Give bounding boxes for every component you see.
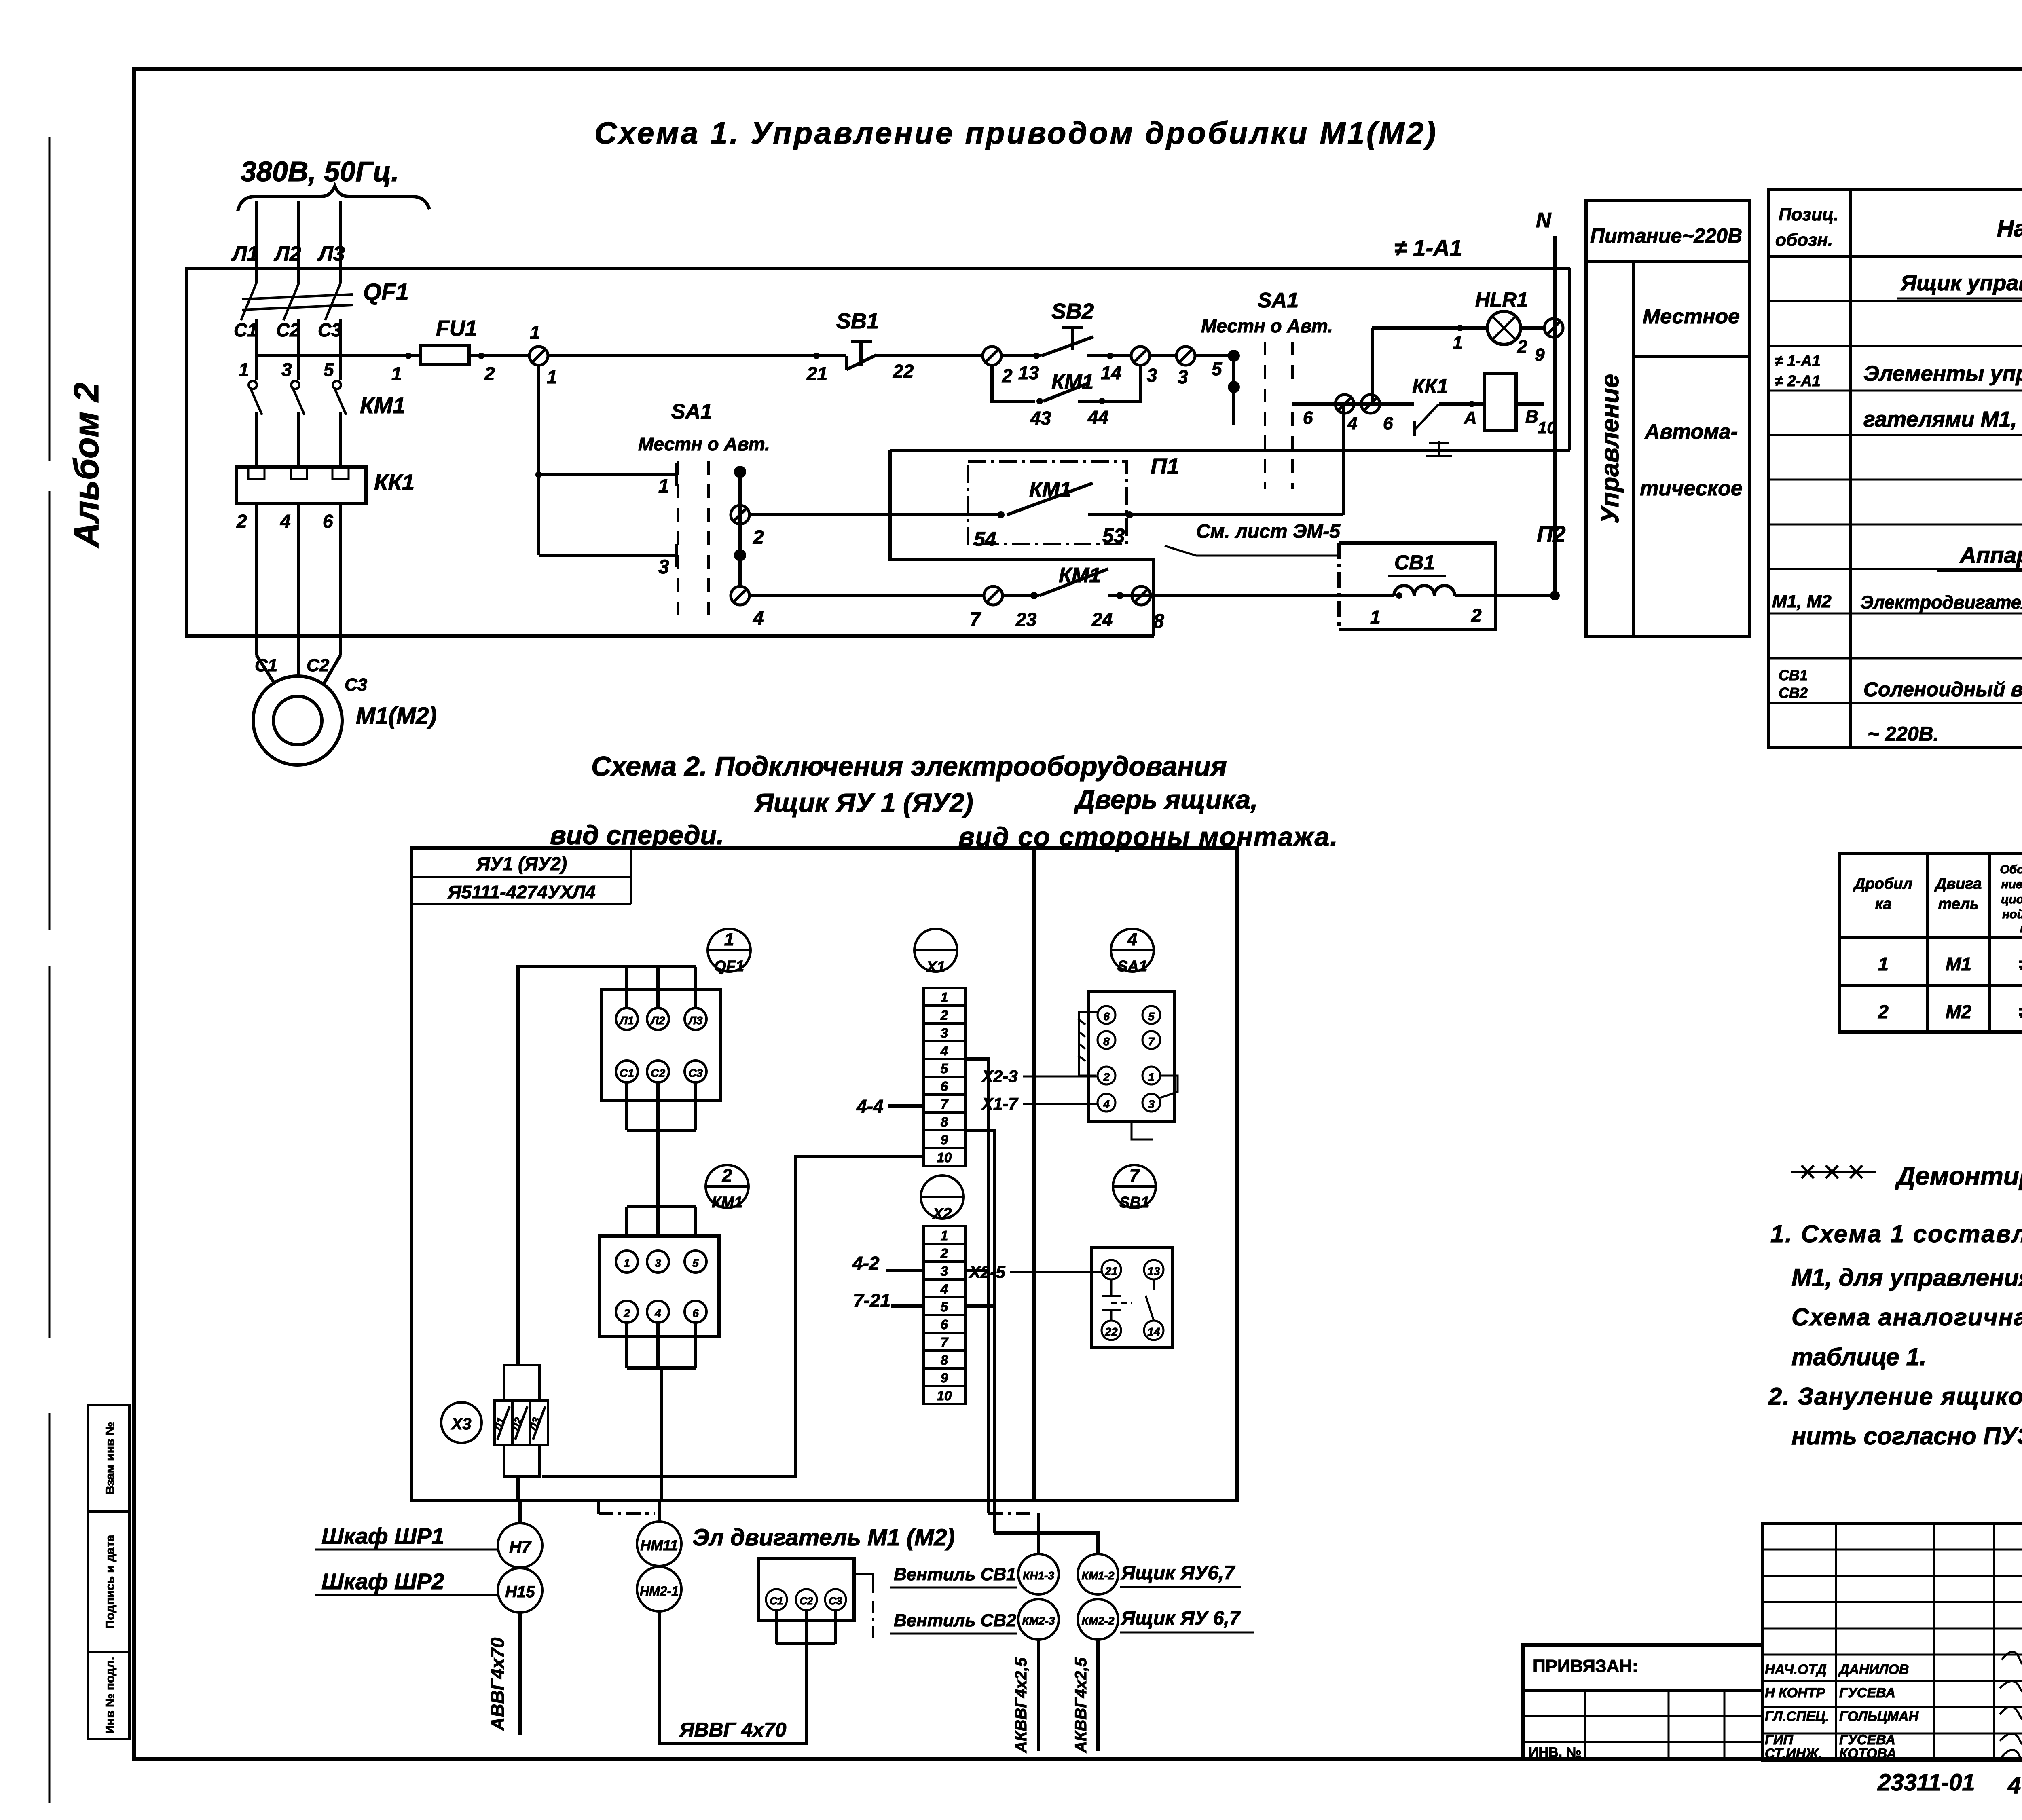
svg-text:2: 2 [753, 527, 764, 548]
svg-text:21: 21 [1104, 1265, 1117, 1277]
svg-text:6: 6 [692, 1307, 699, 1319]
svg-text:Альбом 2: Альбом 2 [67, 383, 106, 548]
svg-text:Питание~220В: Питание~220В [1590, 224, 1742, 247]
svg-text:Шкаф ШР1: Шкаф ШР1 [321, 1523, 444, 1549]
svg-text:9: 9 [941, 1132, 948, 1147]
svg-text:2: 2 [1471, 605, 1482, 626]
svg-text:Элементы управления электродви: Элементы управления электродви- [1863, 361, 2022, 386]
svg-text:КН1-3: КН1-3 [1023, 1569, 1054, 1582]
svg-text:4: 4 [1347, 414, 1357, 433]
svg-text:54: 54 [974, 528, 996, 550]
svg-text:~ 220В.: ~ 220В. [1868, 723, 1939, 745]
svg-text:1: 1 [1453, 333, 1462, 353]
svg-text:2: 2 [940, 1008, 948, 1023]
svg-text:SB1: SB1 [836, 309, 879, 333]
svg-text:циональ-: циональ- [2001, 893, 2022, 906]
svg-text:НАЧ.ОТД: НАЧ.ОТД [1765, 1662, 1827, 1677]
svg-text:2: 2 [484, 363, 495, 384]
svg-text:Х2-5: Х2-5 [969, 1262, 1005, 1281]
svg-text:Позиц.: Позиц. [1779, 205, 1839, 224]
svg-text:8: 8 [941, 1353, 948, 1368]
svg-text:ГУСЕВА: ГУСЕВА [1839, 1732, 1895, 1748]
svg-text:Местн о Авт.: Местн о Авт. [638, 433, 770, 454]
svg-text:QF1: QF1 [363, 279, 409, 305]
svg-text:6: 6 [1383, 414, 1393, 433]
svg-text:Дробил: Дробил [1853, 875, 1912, 892]
svg-text:1: 1 [1148, 1071, 1155, 1083]
svg-text:СВ2: СВ2 [1779, 685, 1808, 701]
svg-text:Ящик ЯУ6,7: Ящик ЯУ6,7 [1120, 1562, 1235, 1584]
svg-text:13: 13 [1147, 1265, 1160, 1277]
svg-text:4: 4 [280, 511, 291, 532]
svg-text:3: 3 [941, 1025, 948, 1040]
svg-text:АКВВГ4х2,5: АКВВГ4х2,5 [1072, 1657, 1090, 1753]
svg-text:ГОЛЬЦМАН: ГОЛЬЦМАН [1839, 1709, 1919, 1724]
svg-text:1: 1 [658, 476, 669, 497]
svg-text:44: 44 [1087, 407, 1108, 428]
svg-text:СВ1: СВ1 [1394, 551, 1435, 574]
svg-text:10: 10 [937, 1150, 952, 1165]
svg-text:QF1: QF1 [714, 958, 744, 975]
svg-text:5: 5 [692, 1257, 699, 1269]
svg-text:Я5111-4274УХЛ4: Я5111-4274УХЛ4 [447, 881, 596, 903]
svg-text:ГИП: ГИП [1765, 1732, 1794, 1748]
svg-text:В: В [1525, 407, 1538, 427]
svg-text:С1: С1 [770, 1595, 783, 1607]
svg-text:5: 5 [324, 359, 334, 380]
svg-text:КОТОВА: КОТОВА [1839, 1746, 1896, 1761]
svg-text:4-2: 4-2 [852, 1253, 880, 1274]
svg-text:Х2-3: Х2-3 [981, 1067, 1018, 1086]
svg-text:С1: С1 [234, 319, 258, 340]
svg-text:3: 3 [1148, 1098, 1155, 1110]
svg-text:Вентиль СВ1: Вентиль СВ1 [894, 1564, 1016, 1584]
svg-text:2. Зануление ящиков, эл. двига: 2. Зануление ящиков, эл. двигателей выпо… [1768, 1383, 2022, 1410]
svg-text:13: 13 [1018, 362, 1039, 383]
svg-text:С1: С1 [255, 655, 277, 675]
svg-text:Н КОНТР: Н КОНТР [1765, 1685, 1825, 1701]
svg-text:1: 1 [624, 1257, 630, 1269]
svg-text:Вентиль СВ2: Вентиль СВ2 [894, 1611, 1016, 1630]
svg-text:1: 1 [941, 1228, 948, 1243]
svg-text:≠ 2-А1: ≠ 2-А1 [1775, 373, 1821, 390]
svg-text:П2: П2 [1537, 521, 1565, 547]
svg-text:Управление: Управление [1596, 374, 1624, 524]
svg-text:SA1: SA1 [1258, 289, 1299, 312]
svg-text:Эл двигатель М1 (М2): Эл двигатель М1 (М2) [692, 1524, 955, 1551]
svg-text:обозн.: обозн. [1775, 230, 1833, 250]
svg-text:СВ1: СВ1 [1779, 667, 1808, 683]
svg-text:22: 22 [1104, 1325, 1118, 1338]
svg-text:8: 8 [1153, 611, 1164, 632]
svg-text:380В, 50Гц.: 380В, 50Гц. [241, 156, 399, 187]
svg-text:10: 10 [937, 1388, 952, 1403]
svg-text:НМ11: НМ11 [640, 1537, 678, 1554]
svg-text:≠2: ≠2 [2019, 1001, 2022, 1022]
svg-text:М1: М1 [1946, 953, 1971, 974]
svg-text:SВ1: SВ1 [1119, 1194, 1149, 1211]
svg-text:С3: С3 [829, 1595, 842, 1607]
svg-text:1: 1 [530, 322, 540, 343]
svg-text:Х1-7: Х1-7 [981, 1094, 1018, 1113]
svg-text:53: 53 [1102, 524, 1125, 547]
svg-text:Схема 2. Подключения электрооб: Схема 2. Подключения электрооборудования [591, 751, 1227, 782]
svg-text:С2: С2 [799, 1595, 813, 1607]
svg-text:пы: пы [2020, 922, 2022, 935]
svg-text:ние функ: ние функ [2001, 878, 2022, 891]
svg-text:6: 6 [941, 1079, 948, 1094]
svg-text:Электродвигатель 4А250S4;~380В: Электродвигатель 4А250S4;~380В; 75кВт. [1860, 592, 2022, 613]
svg-text:КМ1: КМ1 [1051, 370, 1093, 394]
svg-text:Н15: Н15 [505, 1583, 535, 1601]
svg-text:Дверь ящика,: Дверь ящика, [1074, 784, 1258, 814]
svg-text:1. Схема 1 составлена для упра: 1. Схема 1 составлена для управления при… [1770, 1220, 2022, 1247]
svg-text:Подпись и дата: Подпись и дата [104, 1535, 117, 1629]
svg-text:SB2: SB2 [1051, 299, 1094, 323]
svg-text:Наименование: Наименование [1997, 216, 2022, 242]
svg-text:3: 3 [1178, 366, 1188, 387]
svg-text:2: 2 [623, 1307, 630, 1319]
svg-text:М1(М2): М1(М2) [356, 703, 437, 729]
svg-text:9: 9 [1535, 345, 1545, 365]
svg-text:С3: С3 [688, 1067, 703, 1079]
svg-text:ПРИВЯЗАН:: ПРИВЯЗАН: [1533, 1656, 1638, 1676]
svg-text:Схема аналогична с изменениями: Схема аналогична с изменениями согласно [1791, 1304, 2022, 1331]
svg-text:С3: С3 [345, 675, 367, 695]
svg-text:5: 5 [941, 1061, 948, 1076]
svg-text:М1, для управления приводом М2: М1, для управления приводом М2. [1791, 1264, 2022, 1291]
svg-text:4-4: 4-4 [856, 1096, 883, 1117]
svg-text:Инв № подл.: Инв № подл. [104, 1657, 117, 1734]
svg-text:FU1: FU1 [436, 316, 477, 340]
svg-text:4: 4 [654, 1307, 661, 1319]
svg-text:4: 4 [753, 608, 764, 629]
svg-text:КМ1-2: КМ1-2 [1081, 1569, 1114, 1582]
svg-text:5: 5 [941, 1299, 948, 1314]
svg-text:6: 6 [323, 511, 333, 532]
svg-text:2: 2 [236, 511, 247, 532]
svg-text:7: 7 [941, 1335, 949, 1350]
svg-text:≠ 1-А1: ≠ 1-А1 [1394, 235, 1462, 260]
svg-text:2: 2 [722, 1166, 732, 1186]
svg-text:N: N [1536, 209, 1552, 232]
svg-text:С2: С2 [651, 1067, 665, 1079]
svg-text:2: 2 [1878, 1001, 1889, 1022]
svg-text:4: 4 [1127, 930, 1137, 949]
svg-text:Л3: Л3 [317, 242, 345, 266]
svg-text:Л1: Л1 [231, 242, 259, 266]
svg-text:40: 40 [2007, 1772, 2022, 1799]
svg-text:3: 3 [281, 359, 292, 380]
svg-text:КМ1: КМ1 [1059, 564, 1101, 587]
svg-text:КМ2-2: КМ2-2 [1081, 1615, 1114, 1627]
svg-text:14: 14 [1101, 362, 1121, 383]
svg-text:ка: ка [1875, 896, 1892, 913]
svg-text:2: 2 [1517, 337, 1527, 357]
svg-text:3: 3 [941, 1264, 948, 1279]
svg-text:Обозначе: Обозначе [2000, 863, 2022, 876]
svg-text:≠1: ≠1 [2019, 953, 2022, 974]
svg-text:Схема 1. Управление приводом д: Схема 1. Управление приводом дробилки М1… [594, 116, 1438, 150]
svg-text:4: 4 [940, 1043, 948, 1058]
svg-text:43: 43 [1030, 408, 1051, 429]
svg-text:ной груп: ной груп [2002, 908, 2022, 921]
svg-text:Автома-: Автома- [1644, 420, 1738, 444]
svg-text:SА1: SА1 [1117, 958, 1147, 975]
svg-text:1: 1 [1370, 607, 1381, 628]
svg-text:5: 5 [1148, 1010, 1155, 1023]
svg-text:АКВВГ4х2,5: АКВВГ4х2,5 [1012, 1657, 1030, 1753]
svg-text:Шкаф ШР2: Шкаф ШР2 [321, 1568, 444, 1594]
svg-text:Х3: Х3 [451, 1415, 472, 1433]
svg-text:1: 1 [239, 359, 249, 380]
svg-text:21: 21 [806, 363, 827, 384]
svg-text:С1: С1 [620, 1067, 634, 1079]
svg-text:См. лист ЭМ-5: См. лист ЭМ-5 [1196, 521, 1341, 542]
svg-text:КМ2-3: КМ2-3 [1022, 1615, 1055, 1627]
svg-text:тическое: тическое [1640, 477, 1743, 500]
svg-text:П1: П1 [1151, 453, 1179, 479]
svg-text:КМ1: КМ1 [712, 1194, 742, 1211]
svg-text:С2: С2 [276, 319, 300, 340]
svg-text:6: 6 [1303, 408, 1313, 428]
svg-text:таблице 1.: таблице 1. [1791, 1343, 1927, 1370]
svg-text:1: 1 [941, 990, 948, 1005]
svg-text:8: 8 [1103, 1035, 1110, 1048]
svg-text:Х2: Х2 [932, 1205, 952, 1222]
svg-text:гателями М1, М2: гателями М1, М2 [1863, 407, 2022, 431]
svg-text:ГУСЕВА: ГУСЕВА [1839, 1685, 1895, 1701]
svg-text:4: 4 [940, 1281, 948, 1296]
svg-text:1: 1 [1878, 953, 1889, 974]
svg-text:Ящик ЯУ 6,7: Ящик ЯУ 6,7 [1120, 1608, 1241, 1629]
svg-text:ЯУ1 (ЯУ2): ЯУ1 (ЯУ2) [476, 853, 567, 874]
svg-text:Взам инв №: Взам инв № [104, 1422, 117, 1494]
svg-text:Местное: Местное [1643, 305, 1740, 328]
svg-text:7: 7 [970, 609, 981, 630]
svg-text:Х1: Х1 [926, 959, 945, 976]
svg-text:Л2: Л2 [273, 242, 301, 266]
svg-text:ГЛ.СПЕЦ.: ГЛ.СПЕЦ. [1765, 1709, 1829, 1724]
svg-text:Ящик управления Я5111-4274УХЛ4: Ящик управления Я5111-4274УХЛ4 [1900, 271, 2022, 295]
svg-text:ЯВВГ 4х70: ЯВВГ 4х70 [679, 1719, 787, 1741]
svg-text:Демонтировать.: Демонтировать. [1895, 1161, 2022, 1190]
svg-text:3: 3 [1147, 365, 1157, 386]
svg-text:Л2: Л2 [650, 1014, 665, 1027]
svg-text:2: 2 [940, 1246, 948, 1261]
svg-text:24: 24 [1091, 609, 1113, 630]
svg-text:8: 8 [941, 1114, 948, 1129]
svg-text:Двига: Двига [1934, 875, 1982, 892]
svg-text:1: 1 [391, 363, 402, 384]
svg-text:С3: С3 [318, 319, 342, 340]
svg-text:ИНВ. №: ИНВ. № [1529, 1745, 1581, 1760]
svg-text:КК1: КК1 [374, 469, 415, 495]
svg-text:НМ2-1: НМ2-1 [640, 1584, 679, 1598]
svg-text:С2: С2 [307, 655, 330, 675]
svg-text:М1, М2: М1, М2 [1772, 592, 1832, 611]
svg-text:7-21: 7-21 [853, 1290, 890, 1311]
svg-text:Соленоидный вентиль 15кч888рСВ: Соленоидный вентиль 15кч888рСВМ [1863, 678, 2022, 701]
svg-text:6: 6 [1103, 1010, 1110, 1023]
svg-text:М2: М2 [1946, 1001, 1971, 1022]
svg-text:3: 3 [658, 556, 669, 578]
svg-text:22: 22 [893, 361, 914, 382]
svg-text:Л1: Л1 [619, 1014, 634, 1027]
svg-text:7: 7 [1129, 1166, 1140, 1186]
svg-text:Н7: Н7 [509, 1537, 531, 1556]
svg-text:14: 14 [1147, 1325, 1160, 1338]
svg-text:А: А [1464, 408, 1477, 428]
svg-text:23: 23 [1015, 609, 1037, 630]
svg-text:1: 1 [547, 366, 557, 387]
svg-text:КК1: КК1 [1412, 375, 1448, 397]
svg-text:4: 4 [1103, 1098, 1110, 1110]
svg-text:тель: тель [1938, 896, 1979, 913]
svg-text:АВВГ4х70: АВВГ4х70 [487, 1637, 508, 1731]
svg-text:≠ 1-А1: ≠ 1-А1 [1775, 353, 1821, 370]
svg-text:SA1: SA1 [671, 400, 712, 423]
svg-text:ДАНИЛОВ: ДАНИЛОВ [1838, 1662, 1909, 1677]
svg-text:Аппаратура по месту.: Аппаратура по месту. [1959, 542, 2022, 568]
svg-text:5: 5 [1212, 358, 1223, 379]
svg-text:3: 3 [655, 1257, 661, 1269]
svg-text:нить согласно ПУЭ §1-7-46-85.: нить согласно ПУЭ §1-7-46-85. [1791, 1423, 2022, 1450]
svg-text:Местн о Авт.: Местн о Авт. [1201, 315, 1333, 336]
svg-text:вид спереди.: вид спереди. [550, 820, 724, 850]
svg-text:КМ1: КМ1 [1029, 478, 1071, 501]
svg-text:СТ.ИНЖ.: СТ.ИНЖ. [1765, 1746, 1822, 1761]
svg-text:7: 7 [1148, 1035, 1155, 1048]
svg-text:КМ1: КМ1 [360, 393, 405, 418]
svg-text:10: 10 [1538, 418, 1557, 437]
svg-text:1: 1 [724, 930, 734, 949]
svg-text:HLR1: HLR1 [1475, 288, 1528, 311]
svg-text:6: 6 [941, 1317, 948, 1332]
svg-text:Ящик ЯУ 1 (ЯУ2): Ящик ЯУ 1 (ЯУ2) [753, 788, 973, 818]
svg-text:Л3: Л3 [688, 1014, 703, 1027]
svg-text:2: 2 [1103, 1071, 1110, 1083]
svg-text:9: 9 [941, 1370, 948, 1385]
svg-text:7: 7 [941, 1097, 949, 1112]
svg-text:2: 2 [1002, 365, 1013, 386]
svg-text:23311-01: 23311-01 [1877, 1769, 1975, 1796]
